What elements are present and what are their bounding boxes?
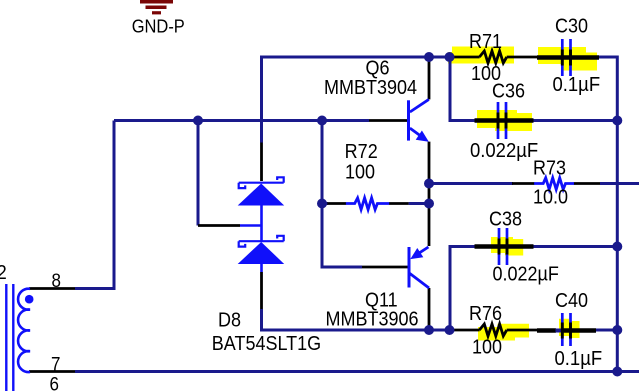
wire C38 branch xyxy=(450,247,617,331)
resistor R72 blue zigzag xyxy=(346,198,389,210)
pin lead D8 bottom black xyxy=(260,272,263,309)
svg-text:C30: C30 xyxy=(555,16,588,38)
highlight C30 xyxy=(538,47,597,71)
wire R73 row xyxy=(429,182,639,185)
svg-text:0.022µF: 0.022µF xyxy=(470,139,538,162)
transistor Q11 xyxy=(409,247,429,288)
resistor R76 black leads and zigzag xyxy=(449,324,537,336)
svg-text:D8: D8 xyxy=(218,310,241,332)
capacitor C40 xyxy=(537,313,596,346)
resistor R71 black leads and zigzag xyxy=(450,51,537,63)
svg-text:R72: R72 xyxy=(345,141,378,163)
wire node to R72 and Q11 base xyxy=(322,121,362,268)
wire bottom row xyxy=(260,309,617,330)
pin lead Q6 emitter to Q11 emitter black xyxy=(428,142,431,246)
diode D8 internal connect xyxy=(240,206,262,273)
svg-text:R76: R76 xyxy=(469,303,502,325)
svg-text:0.022µF: 0.022µF xyxy=(493,264,559,286)
wire R72 row xyxy=(322,202,429,205)
wire top rail horizontal xyxy=(262,57,451,143)
svg-text:6: 6 xyxy=(50,374,59,391)
pin lead R72 right black xyxy=(389,202,409,205)
transistor Q6 xyxy=(409,99,429,141)
svg-text:MMBT3904: MMBT3904 xyxy=(324,77,417,99)
wire pin7 net xyxy=(75,370,639,373)
svg-text:0.1µF: 0.1µF xyxy=(553,73,601,96)
highlight C36 xyxy=(477,110,532,131)
pin lead D8 mid black xyxy=(198,224,240,227)
pin lead pin7 black xyxy=(29,370,75,373)
highlight C38 xyxy=(491,237,523,256)
highlight R76 xyxy=(478,324,529,341)
transformer polarity dot xyxy=(25,295,34,304)
svg-text:10.0: 10.0 xyxy=(533,187,568,209)
pin lead Q11 collector black xyxy=(428,288,431,330)
pin lead R72 left black xyxy=(327,202,346,205)
pin lead Q6 base black xyxy=(369,119,409,122)
resistor R73 blue zigzag xyxy=(534,178,574,190)
svg-text:BAT54SLT1G: BAT54SLT1G xyxy=(212,333,321,355)
wire Q6 base row xyxy=(114,119,369,122)
pin lead D8 top black xyxy=(260,143,263,182)
pin lead Q6 collector black xyxy=(428,57,431,99)
capacitor C30 xyxy=(537,39,599,76)
transformer core lines xyxy=(6,284,13,391)
svg-text:R73: R73 xyxy=(533,158,566,180)
svg-text:C38: C38 xyxy=(489,209,522,231)
wire R71 to C30 row xyxy=(599,57,617,372)
svg-text:0.1µF: 0.1µF xyxy=(555,347,603,370)
svg-text:100: 100 xyxy=(345,162,375,184)
pin lead R73 left black xyxy=(512,182,535,185)
pin lead R73 right black xyxy=(574,182,601,185)
transformer winding xyxy=(18,289,30,372)
highlight R71 xyxy=(448,47,514,64)
highlight C40 xyxy=(559,319,580,338)
svg-text:7: 7 xyxy=(51,354,60,375)
pin lead pin8 black xyxy=(29,287,75,290)
svg-text:100: 100 xyxy=(472,337,502,359)
capacitor C38 xyxy=(475,228,534,265)
ground GND-P symbol xyxy=(140,0,173,14)
svg-text:8: 8 xyxy=(52,270,61,291)
svg-text:C36: C36 xyxy=(492,81,525,103)
svg-text:GND-P: GND-P xyxy=(132,15,185,36)
wire node to diode mid xyxy=(197,121,200,226)
svg-text:2: 2 xyxy=(0,261,7,284)
wire pin8 to base row vertical xyxy=(75,121,114,289)
svg-text:C40: C40 xyxy=(555,290,588,312)
svg-text:MMBT3906: MMBT3906 xyxy=(326,309,419,331)
svg-text:R71: R71 xyxy=(469,31,502,53)
wire C36 branch xyxy=(450,57,617,121)
pin lead Q11 base black xyxy=(362,266,409,269)
capacitor C36 xyxy=(475,102,534,139)
diode D8 bottom schottky xyxy=(238,236,285,264)
diode D8 top schottky xyxy=(238,177,285,205)
